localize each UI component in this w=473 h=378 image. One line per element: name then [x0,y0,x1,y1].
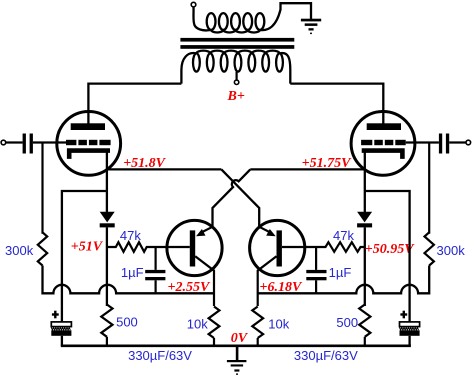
wire D2 to 500 resistor [364,227,366,306]
+51.75V wire [250,168,364,170]
resistor 300k left [38,232,47,265]
svg-text:+51.75V: +51.75V [302,156,352,171]
svg-text:+51V: +51V [71,240,104,255]
crossing wire from V2 cathode to Q1 (with hop) [213,169,251,227]
resistor 47k left and wire to Q1 base [107,242,190,252]
svg-text:330µF/63V: 330µF/63V [294,348,358,363]
triode V2 envelope [351,111,415,175]
center tap terminal [234,80,238,84]
wire grid junction down [41,143,43,234]
V1 plate [71,123,105,130]
transistor Q2 envelope [250,220,305,275]
ground (top right) [301,19,321,34]
svg-text:+6.18V: +6.18V [260,280,303,295]
center tap B+ lead [236,72,238,80]
svg-text:10k: 10k [268,316,289,331]
wire V2 grid to C2 [406,141,439,143]
electrolytic 330uF right top plate [400,322,420,327]
resistor 500 left [101,305,112,337]
wire 47k junction to C4 [315,247,317,270]
svg-text:300k: 300k [437,243,466,258]
Q2 base bar [277,230,282,266]
Q1 base bar [190,230,195,266]
svg-text:B+: B+ [227,89,245,104]
wire 10k right to rail [257,338,259,346]
svg-text:330µF/63V: 330µF/63V [128,348,192,363]
coupling capacitor C2 [439,134,449,154]
coupling capacitor C1 [23,134,33,154]
capacitor C4 1uF right [306,270,326,280]
diode D1 [100,212,115,228]
Q2 emitter with arrow [259,227,276,236]
wire C3 to bus [155,280,157,293]
svg-text:47k: 47k [333,228,354,243]
transformer T1 core [180,38,294,49]
svg-text:500: 500 [336,315,358,330]
electrolytic 330uF left polarity + [52,311,59,319]
wire C4 to bus [315,280,317,293]
input terminal left [1,140,6,145]
svg-text:+51.8V: +51.8V [123,156,166,171]
electrolytic 330uF right polarity + [400,311,407,319]
electrolytic 330uF left bottom plate [51,330,71,336]
wire cathode to electrolytic right [365,191,410,322]
V2 grid (dashed) [361,140,406,145]
wire D1 to 500 resistor [106,227,108,306]
triode V1 envelope [57,111,121,175]
svg-text:1µF: 1µF [329,265,352,280]
V1 cathode [69,151,110,159]
svg-text:0V: 0V [231,331,249,346]
transistor Q1 envelope [167,220,222,275]
crossing wire from V1 cathode to Q2 [221,169,259,227]
input terminal right [466,140,471,145]
electrolytic 330uF left separator [51,327,70,330]
svg-text:1µF: 1µF [121,265,144,280]
resistor 500 right [359,305,370,337]
electrolytic 330uF left top plate [51,322,71,327]
wire 500 left to rail [106,337,108,346]
wire cathode to electrolytic [62,191,107,322]
resistor 10k right [252,307,263,339]
V2 cathode lead [364,151,366,213]
resistor 300k right [425,232,434,265]
wire input to C1 [6,141,23,143]
resistor 47k right and wire to Q2 base [282,242,365,252]
wire electrolytic left to rail [61,336,63,346]
ground rail [61,344,411,347]
V2 cathode [362,151,403,159]
transformer T1 secondary winding and wire to ground [193,3,311,32]
electrolytic 330uF right separator [400,327,419,330]
electrolytic 330uF right bottom plate [400,330,420,336]
wire 300k to left bus with hops [43,266,215,294]
wire 300k to right bus with hops [258,266,430,294]
wire 47k junction to C3 [155,247,157,270]
wire electrolytic right to rail [408,336,410,346]
svg-text:300k: 300k [5,243,34,258]
wire 10k left to rail [213,338,215,346]
svg-text:10k: 10k [187,316,208,331]
Q1 collector [195,256,214,306]
secondary terminal [191,2,196,7]
V1 cathode lead [106,151,108,213]
Q2 collector [258,256,277,306]
capacitor C3 1uF left [145,270,165,280]
wire C2 to terminal [449,141,466,143]
wire primary left to V1 plate [88,84,181,125]
ground (bottom) [227,346,247,375]
svg-text:+50.95V: +50.95V [365,242,415,257]
svg-text:+2.55V: +2.55V [168,280,211,295]
wire 500 right to rail [364,337,366,346]
svg-text:500: 500 [116,314,138,329]
V2 plate [367,123,401,130]
wire primary right to V2 plate [290,84,383,125]
transformer T1 primary winding [181,51,290,84]
Q1 emitter with arrow [196,227,213,236]
svg-text:47k: 47k [120,228,141,243]
resistor 10k left [209,307,220,339]
diode D2 [357,212,372,228]
+51.8V wire [107,168,221,170]
wire C1 to V1 grid [33,141,66,143]
wire grid junction down right [428,143,430,234]
V1 grid (dashed) [66,140,111,145]
